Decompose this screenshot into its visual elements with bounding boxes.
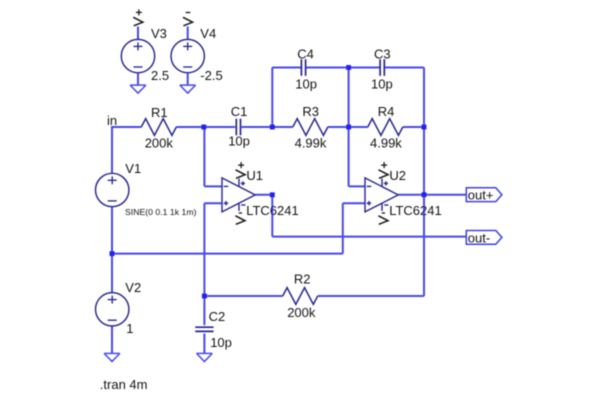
svg-text:R2: R2 bbox=[294, 272, 311, 287]
svg-text:LTC6241: LTC6241 bbox=[389, 203, 442, 218]
svg-text:R1: R1 bbox=[151, 105, 168, 120]
svg-text:R4: R4 bbox=[378, 104, 395, 119]
svg-text:R3: R3 bbox=[302, 104, 319, 119]
svg-text:2.5: 2.5 bbox=[151, 68, 169, 83]
svg-text:V1: V1 bbox=[125, 161, 141, 176]
svg-text:200k: 200k bbox=[145, 135, 174, 150]
svg-text:10p: 10p bbox=[228, 134, 250, 149]
svg-text:out-: out- bbox=[468, 230, 490, 245]
svg-text:1: 1 bbox=[126, 321, 133, 336]
svg-text:10p: 10p bbox=[371, 77, 393, 92]
svg-text:U2: U2 bbox=[389, 168, 406, 183]
svg-text:C3: C3 bbox=[374, 46, 391, 61]
svg-text:10p: 10p bbox=[295, 77, 317, 92]
svg-text:V4: V4 bbox=[200, 26, 216, 41]
svg-text:10p: 10p bbox=[210, 335, 232, 350]
svg-text:V3: V3 bbox=[151, 26, 167, 41]
svg-text:U1: U1 bbox=[246, 168, 263, 183]
svg-text:V2: V2 bbox=[125, 280, 141, 295]
svg-text:C2: C2 bbox=[209, 309, 226, 324]
svg-text:in: in bbox=[107, 113, 117, 128]
svg-text:.tran 4m: .tran 4m bbox=[100, 377, 148, 392]
svg-text:-2.5: -2.5 bbox=[200, 68, 222, 83]
svg-text:200k: 200k bbox=[287, 305, 316, 320]
svg-text:C4: C4 bbox=[297, 46, 314, 61]
svg-text:C1: C1 bbox=[231, 104, 248, 119]
svg-text:4.99k: 4.99k bbox=[370, 136, 402, 151]
svg-text:LTC6241: LTC6241 bbox=[246, 203, 299, 218]
svg-text:out+: out+ bbox=[468, 188, 494, 203]
svg-text:4.99k: 4.99k bbox=[295, 136, 327, 151]
svg-text:SINE(0 0.1 1k 1m): SINE(0 0.1 1k 1m) bbox=[125, 207, 197, 217]
